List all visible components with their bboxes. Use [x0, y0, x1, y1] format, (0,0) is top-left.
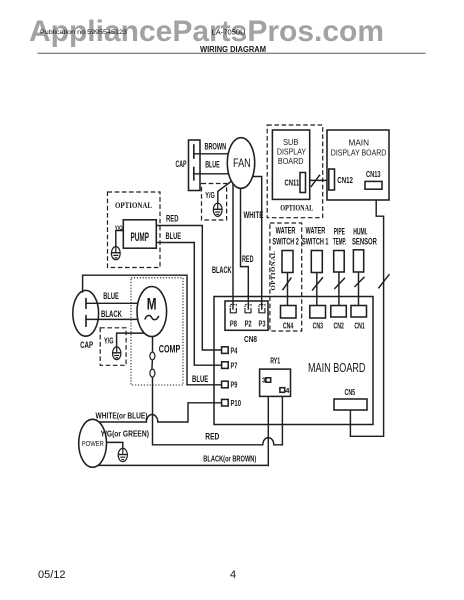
svg-text:SENSOR: SENSOR — [352, 237, 377, 247]
svg-text:BLACK: BLACK — [101, 309, 122, 319]
svg-text:SWITCH 2: SWITCH 2 — [272, 237, 299, 247]
svg-text:BROWN: BROWN — [205, 142, 227, 153]
svg-text:WATER: WATER — [276, 226, 296, 236]
svg-text:SWITCH 1: SWITCH 1 — [302, 237, 329, 247]
svg-text:BLUE: BLUE — [205, 160, 220, 171]
svg-text:Y/G(or GREEN): Y/G(or GREEN) — [101, 428, 150, 438]
svg-text:RY1: RY1 — [270, 355, 280, 365]
svg-text:OPTIONAL: OPTIONAL — [270, 250, 277, 290]
svg-text:RED: RED — [166, 213, 179, 224]
svg-text:CN1: CN1 — [354, 321, 365, 331]
svg-text:CN11: CN11 — [285, 178, 300, 188]
svg-text:DISPLAY: DISPLAY — [277, 146, 307, 156]
svg-text:P10: P10 — [231, 399, 242, 408]
svg-text:CN5: CN5 — [345, 387, 356, 397]
svg-text:CN4: CN4 — [283, 321, 294, 331]
svg-text:CN2: CN2 — [334, 321, 345, 331]
svg-text:OPTIONAL: OPTIONAL — [115, 201, 152, 210]
svg-text:BLACK: BLACK — [212, 265, 232, 276]
svg-text:4: 4 — [230, 569, 236, 581]
svg-text:Y/G: Y/G — [115, 225, 123, 232]
svg-text:P7: P7 — [231, 361, 238, 370]
svg-text:Publication no 5995545123: Publication no 5995545123 — [40, 29, 128, 36]
svg-text:FAN: FAN — [233, 158, 251, 170]
svg-text:COMP: COMP — [159, 343, 181, 355]
svg-text:Y/G: Y/G — [104, 336, 114, 345]
svg-text:TEMP.: TEMP. — [333, 237, 346, 247]
svg-text:LA-7050U: LA-7050U — [212, 30, 246, 37]
svg-text:CN8: CN8 — [244, 334, 257, 344]
svg-text:05/12: 05/12 — [38, 569, 66, 581]
svg-text:CAP: CAP — [80, 340, 93, 351]
svg-text:POWER: POWER — [82, 439, 104, 448]
svg-text:BLUE: BLUE — [103, 291, 119, 301]
svg-text:P8: P8 — [230, 319, 237, 328]
svg-text:WHITE(or BLUE): WHITE(or BLUE) — [96, 410, 148, 420]
svg-text:PUMP: PUMP — [131, 230, 150, 244]
svg-text:DISPLAY BOARD: DISPLAY BOARD — [331, 148, 387, 158]
svg-text:CAP: CAP — [176, 159, 187, 170]
svg-text:CN12: CN12 — [337, 175, 353, 185]
svg-text:MAIN: MAIN — [349, 138, 370, 148]
svg-text:PIPE: PIPE — [334, 227, 345, 237]
svg-text:BLUE: BLUE — [166, 231, 182, 242]
svg-text:CN3: CN3 — [313, 321, 324, 331]
svg-text:BLUE: BLUE — [192, 374, 208, 385]
svg-text:M: M — [147, 296, 157, 314]
svg-text:RED: RED — [205, 432, 219, 443]
svg-text:HUMI.: HUMI. — [353, 227, 367, 237]
svg-text:4: 4 — [285, 386, 289, 395]
svg-text:P3: P3 — [259, 319, 266, 328]
svg-text:3: 3 — [262, 376, 266, 385]
svg-text:P2: P2 — [245, 319, 252, 328]
svg-text:WIRING DIAGRAM: WIRING DIAGRAM — [200, 45, 266, 54]
svg-text:BLACK(or BROWN): BLACK(or BROWN) — [203, 453, 256, 463]
svg-text:Y/G: Y/G — [205, 191, 215, 200]
svg-text:RED: RED — [242, 254, 254, 265]
svg-text:OPTIONAL: OPTIONAL — [280, 204, 313, 213]
svg-text:P9: P9 — [231, 381, 238, 390]
svg-text:MAIN BOARD: MAIN BOARD — [308, 361, 366, 375]
svg-text:P4: P4 — [231, 346, 238, 355]
svg-text:CN13: CN13 — [366, 169, 381, 179]
svg-text:SUB: SUB — [283, 137, 299, 147]
svg-text:WHITE: WHITE — [244, 210, 264, 221]
svg-text:BOARD: BOARD — [278, 156, 304, 166]
svg-text:WATER: WATER — [306, 226, 326, 236]
